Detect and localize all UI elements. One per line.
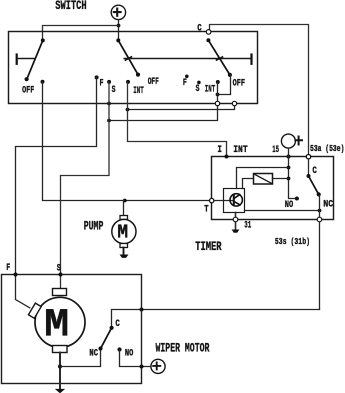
terminal circle OFF3 on box edge xyxy=(232,101,236,105)
node junction NC line xyxy=(318,209,322,213)
svg-text:OFF: OFF xyxy=(148,76,159,88)
node junction y167.7 xyxy=(287,166,291,170)
svg-text:SWITCH: SWITCH xyxy=(55,0,86,13)
contact bar terminal 1 xyxy=(16,55,18,64)
svg-text:53a (53e): 53a (53e) xyxy=(310,144,344,154)
ground 31 xyxy=(232,230,240,233)
wire pump feed xyxy=(123,201,125,216)
transistor Q1 xyxy=(230,194,242,206)
svg-text:M: M xyxy=(44,304,69,349)
svg-text:T: T xyxy=(204,203,208,215)
wire inner loop to transistor xyxy=(237,168,289,189)
switch lever 3 xyxy=(208,40,230,75)
node C wiper xyxy=(110,326,114,330)
node terminal T xyxy=(210,198,214,202)
svg-text:C: C xyxy=(312,165,317,177)
svg-text:15: 15 xyxy=(272,144,279,156)
timer relay lever xyxy=(308,159,310,176)
wire C feed xyxy=(210,25,309,157)
wire S2 down xyxy=(61,82,110,289)
wiper motor box xyxy=(2,275,142,384)
ground motor arrow xyxy=(55,389,65,393)
terminal circle on timer bottom right xyxy=(317,217,322,222)
svg-text:F: F xyxy=(183,77,187,89)
lever 3 pivot xyxy=(206,38,210,42)
transistor box xyxy=(224,189,245,213)
lever 3 wiper tick xyxy=(217,57,223,60)
lever 1 tip dot xyxy=(25,77,29,81)
node terminal 15 xyxy=(287,155,291,159)
node NO wiper xyxy=(117,347,121,351)
wire transistor to ground 31 xyxy=(235,213,237,230)
node terminal F motor xyxy=(14,273,18,277)
wiper motor M1 xyxy=(28,289,85,353)
svg-text:NC: NC xyxy=(89,347,98,359)
wire OFF3 terminal link xyxy=(128,104,235,110)
lever 1 pivot xyxy=(41,38,45,42)
battery plus symbol B1 xyxy=(111,5,125,19)
contact bar terminal 2 xyxy=(250,55,252,64)
wire motor bottom to ground xyxy=(59,353,61,391)
svg-text:TIMER: TIMER xyxy=(195,240,222,254)
svg-text:NO: NO xyxy=(125,347,133,359)
wire NC down out of timer xyxy=(319,196,321,310)
node junction lever3/INT3 xyxy=(216,93,220,97)
wire contact 1 xyxy=(18,58,34,60)
svg-text:F: F xyxy=(6,262,10,274)
node NC contact timer xyxy=(317,192,321,196)
node INT contact switch3 xyxy=(216,80,220,84)
battery plus symbol wiper xyxy=(151,359,165,373)
terminal circle on timer bottom left xyxy=(233,217,238,222)
node junction y178.4 xyxy=(287,177,291,181)
lever 3 tip dot xyxy=(228,73,232,77)
node S contact switch2 xyxy=(107,80,111,84)
lever 2 wiper tick xyxy=(125,57,131,60)
svg-text:53s (31b): 53s (31b) xyxy=(275,237,310,247)
wire motor junction to NC wiper xyxy=(60,349,101,367)
svg-text:WIPER MOTOR: WIPER MOTOR xyxy=(156,342,210,356)
svg-text:OFF: OFF xyxy=(233,77,245,89)
battery plus symbol at 15 xyxy=(281,134,302,156)
node terminal I xyxy=(225,155,229,159)
wire pump to ground xyxy=(123,248,125,255)
switch lever 2 xyxy=(118,40,138,74)
node junction at plus feed xyxy=(117,24,121,28)
wire from plus down to switch box xyxy=(118,20,120,41)
node motor ground junction xyxy=(58,365,62,369)
wire wiper switch feed rail xyxy=(112,310,320,328)
wire top link to lever P1 xyxy=(43,26,119,41)
switch box S1 xyxy=(9,32,258,104)
wire contact rail 2 xyxy=(124,58,251,60)
switch lever 1 xyxy=(27,40,43,79)
node terminal 53a xyxy=(306,155,310,159)
svg-text:NC: NC xyxy=(323,199,333,211)
svg-text:INT: INT xyxy=(205,84,215,96)
svg-text:S: S xyxy=(112,84,116,96)
node NO contact tip xyxy=(295,197,299,201)
ground pump xyxy=(120,255,129,258)
wire coil right to 15 line xyxy=(273,178,289,180)
svg-text:INT: INT xyxy=(133,85,144,97)
wire contact1 down to pump rail xyxy=(43,82,210,201)
svg-text:S: S xyxy=(196,83,200,95)
relay coil K1 xyxy=(254,174,273,185)
lever 2 tip dot xyxy=(136,73,140,77)
svg-text:31: 31 xyxy=(244,220,251,232)
wire coil left to transistor xyxy=(243,179,254,189)
node INT2 junction y109 xyxy=(126,108,130,112)
wire lever3 tip down and left xyxy=(218,75,231,95)
wire T to transistor xyxy=(214,200,234,202)
node pump feed xyxy=(123,199,127,203)
svg-text:I: I xyxy=(217,144,222,156)
node contact below lever1 xyxy=(41,80,45,84)
node junction NO rail xyxy=(140,365,144,369)
svg-text:INT: INT xyxy=(233,144,248,156)
svg-text:OFF: OFF xyxy=(22,84,34,96)
pump motor M2 xyxy=(112,216,136,248)
wire INT3 down through box edge xyxy=(109,82,218,121)
svg-text:F: F xyxy=(100,77,104,89)
node S contact switch3 xyxy=(197,81,201,85)
node S line at box edge xyxy=(107,102,111,106)
wire F2 down to motor F xyxy=(16,77,97,308)
terminal circle C xyxy=(206,30,211,35)
node F contact switch3 xyxy=(185,75,189,79)
node terminal S motor xyxy=(59,273,63,277)
timer box U1 xyxy=(212,157,334,220)
wiper park lever xyxy=(101,328,112,349)
wire transistor to NC line xyxy=(245,210,320,212)
wire INT2 down to timer I xyxy=(128,82,227,157)
node F contact switch2 xyxy=(95,75,99,79)
node S line junction y121 xyxy=(107,119,111,123)
lever 2 pivot xyxy=(116,38,120,42)
wire 15 line down to NO xyxy=(289,157,297,199)
terminal circle INT3 on box edge xyxy=(215,101,219,105)
svg-text:S: S xyxy=(57,262,61,274)
node NC wiper xyxy=(98,346,102,350)
svg-text:NO: NO xyxy=(285,199,293,211)
svg-text:C: C xyxy=(197,22,202,34)
svg-text:PUMP: PUMP xyxy=(84,219,104,233)
node INT contact switch2 xyxy=(126,80,130,84)
svg-text:M: M xyxy=(117,222,128,244)
wire NO to plus xyxy=(120,350,151,367)
svg-text:C: C xyxy=(115,318,120,330)
node junction at motor box right edge xyxy=(140,308,144,312)
